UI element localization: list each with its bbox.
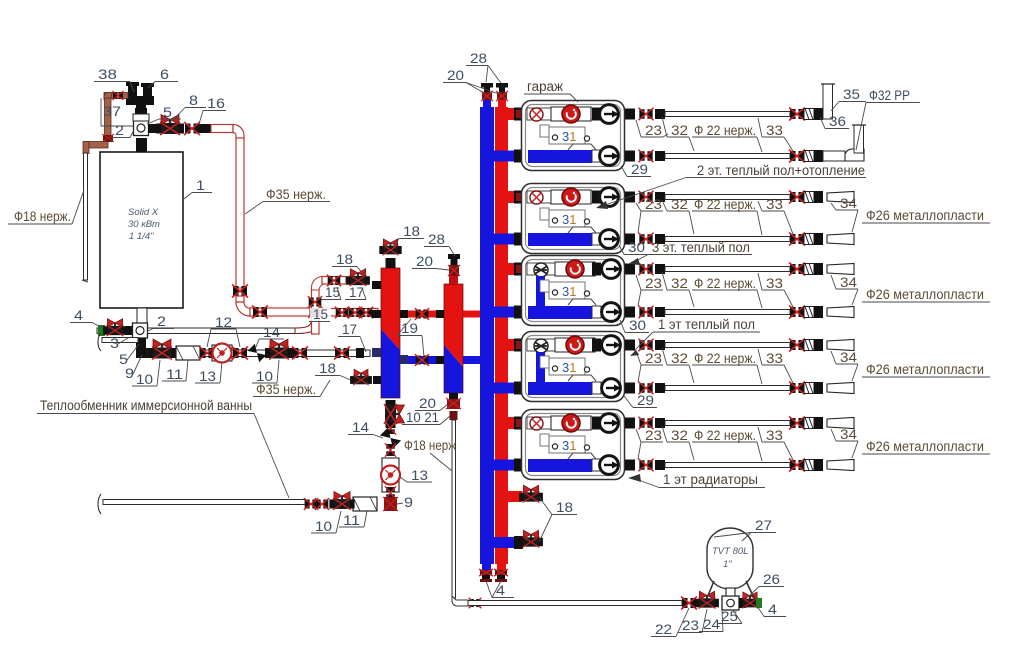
svg-text:14: 14 [352,420,370,435]
svg-text:28: 28 [428,232,445,247]
svg-text:1 эт теплый пол: 1 эт теплый пол [658,317,755,332]
valve on upper stub (18) [346,269,370,286]
fitting 5 [135,108,147,114]
svg-text:20: 20 [419,396,436,411]
svg-text:2 эт. теплый пол+отопление: 2 эт. теплый пол+отопление [697,163,865,178]
svg-text:23: 23 [645,197,662,212]
adapter 34 [827,340,854,351]
svg-text:30: 30 [629,318,646,333]
sep1 bottom chain: valve10, check14, pump13, elbow9 [384,400,405,428]
valve 10 #1 [148,339,176,360]
svg-text:Ф 22 нерж.: Ф 22 нерж. [694,351,756,366]
expansion tank TVT 80L [707,528,753,589]
svg-text:38: 38 [98,67,117,82]
horizontal pipe to tank [468,601,682,606]
svg-text:30 кВт: 30 кВт [128,219,160,230]
adapter 34 [827,264,854,275]
balancing gauge top [600,188,619,207]
fitting 2 lower [133,323,148,338]
svg-text:22: 22 [655,622,672,637]
hydraulic separator 2 [444,284,463,367]
manifold red supply stub [508,191,516,203]
manifold blue return stub [494,151,516,162]
module return bar [528,459,592,472]
svg-text:35: 35 [843,87,860,102]
balancing gauge bottom [602,303,621,322]
thin line 3 (y339) [102,338,138,343]
manifold blue return stub [494,307,516,318]
module return bar [528,382,592,395]
manifold blue return stub [494,234,516,245]
module valve [530,191,543,204]
svg-text:Ф35 нерж.: Ф35 нерж. [256,382,316,397]
svg-text:5: 5 [163,105,172,120]
row1 supply pipe [625,109,635,120]
riser x312-319 [312,288,320,334]
row3 return pipe [625,307,635,318]
balancing gauge bottom [600,456,619,475]
top elbow to right [312,277,325,291]
svg-text:Ф18 нерж: Ф18 нерж [404,438,456,453]
s-jog left [86,142,108,149]
manifold blue bar [480,107,494,564]
svg-text:Ф 22 нерж.: Ф 22 нерж. [694,197,756,212]
module pump [551,107,591,121]
svg-text:33: 33 [766,123,783,138]
svg-text:31: 31 [562,360,576,375]
union 12b [232,347,248,360]
manifold red supply stub [508,108,516,120]
elbow 9 [384,497,397,511]
row5 return pipe [625,460,635,471]
balancing gauge bottom [602,379,621,398]
pump module M1 [522,101,625,171]
return line y330 [97,328,303,334]
filter 11 [176,346,200,360]
row1 return pipe [625,151,635,162]
sep2 bottom stub / valve 20 / fitting 21 [449,393,458,399]
row3 supply pipe [625,264,635,275]
svg-text:Ф26 металлопласти: Ф26 металлопласти [866,287,984,302]
svg-text:31: 31 [562,212,576,227]
F35 horiz continuation to sep [320,309,378,317]
union on drop [103,135,113,142]
svg-text:24: 24 [703,617,721,632]
svg-text:27: 27 [755,518,772,533]
row1 riser F32 top [823,84,833,119]
svg-text:14: 14 [263,325,281,340]
svg-text:1 1/4": 1 1/4" [129,231,154,242]
elbow to right [236,302,252,316]
module pump [551,190,591,204]
F18 thin pipe down [452,420,456,598]
svg-text:Ф26 металлопласти: Ф26 металлопласти [866,208,984,223]
tank stub [726,588,735,596]
svg-text:20: 20 [416,254,433,269]
mixing screw [534,339,548,353]
svg-text:29: 29 [637,393,654,408]
svg-text:29: 29 [631,162,648,177]
fitting after boiler fitting [148,124,159,133]
svg-text:5: 5 [119,352,128,367]
svg-text:1: 1 [196,178,205,193]
tank legs [707,581,754,598]
elbow down [104,93,112,101]
balancing gauge top [602,336,621,355]
svg-text:12: 12 [215,315,232,330]
row2 supply pipe [625,192,635,203]
svg-text:15: 15 [325,285,340,300]
svg-text:10 21: 10 21 [406,410,439,425]
line from boiler bottom [137,308,147,329]
manifold bottom drains 4 [482,564,491,570]
module valve [530,417,543,430]
svg-text:23: 23 [682,618,699,633]
union 16 [184,122,200,135]
manifold red supply stub [508,417,516,429]
module valve [530,108,543,121]
svg-text:Ф 22 нерж.: Ф 22 нерж. [694,276,756,291]
svg-text:13: 13 [199,369,216,384]
link pipes sep1-sep2 with unions 19 [408,311,436,318]
svg-text:Solid X: Solid X [128,207,159,218]
module pump [555,338,595,352]
svg-text:28: 28 [470,51,487,66]
svg-text:Ф32 PP: Ф32 PP [869,88,910,103]
boiler top stub [136,138,147,152]
svg-text:4: 4 [74,308,84,323]
svg-text:Ф 22 нерж.: Ф 22 нерж. [694,123,756,138]
row2 return pipe [625,234,635,245]
svg-text:3: 3 [110,336,119,351]
svg-text:11: 11 [343,513,360,528]
valve 4 green [98,325,105,336]
fitting 2 on boiler top [134,121,149,136]
svg-text:18: 18 [319,361,336,376]
module return bar [528,306,592,319]
balancing gauge top [600,105,619,124]
svg-text:TVT 80L: TVT 80L [712,546,748,557]
svg-text:32: 32 [671,123,688,138]
svg-text:6: 6 [160,67,169,82]
svg-text:33: 33 [766,197,783,212]
svg-text:34: 34 [840,427,858,442]
top stubs + vents 20/28 [483,100,491,108]
unions [315,498,329,510]
sep1 lower-left drain valve 18 [350,369,372,385]
svg-text:Ф26 металлопласти: Ф26 металлопласти [866,439,984,454]
pump run y353 [148,350,370,357]
svg-text:18: 18 [556,500,573,515]
svg-text:Ф 22 нерж.: Ф 22 нерж. [694,428,756,443]
filter 11 [353,497,377,511]
svg-text:23: 23 [645,351,662,366]
manifold blue return stub [494,383,516,394]
balancing gauge top [600,414,619,433]
sep1 right stubs [400,310,408,318]
svg-text:34: 34 [840,275,858,290]
svg-text:Ф26 металлопласти: Ф26 металлопласти [866,362,984,377]
svg-text:Ф18 нерж.: Ф18 нерж. [14,209,71,224]
sep2 top vent 28/20 [448,254,460,259]
balancing gauge bottom [600,147,619,166]
row4 return pipe [625,383,635,394]
tee 25 under tank [722,596,739,610]
svg-text:Ф35 нерж.: Ф35 нерж. [266,187,326,202]
manifold red bar [495,107,508,564]
manifold blue return stub [494,460,516,471]
svg-text:2: 2 [115,123,124,138]
union 12a [199,347,215,360]
svg-text:34: 34 [840,196,858,211]
check valve 14 [248,344,266,362]
svg-text:30: 30 [628,240,645,255]
vertical F35 drop [236,138,244,288]
tee at F35 crossing [310,308,322,317]
svg-text:17: 17 [349,285,364,300]
svg-text:Теплообменник иммерсионной ван: Теплообменник иммерсионной ванны [40,398,252,413]
svg-text:26: 26 [763,572,780,587]
pump module M4 [522,332,625,402]
svg-text:32: 32 [671,428,688,443]
elbow at bottom left of F18 drop [452,596,468,606]
valve 23 [695,591,719,608]
thin pipe F18 down [84,153,88,280]
module return bar [528,233,592,246]
adapter 34 [827,383,854,394]
svg-text:11: 11 [166,367,183,382]
boiler Solid X 30kW [100,152,183,308]
adapter 34 [827,418,854,429]
svg-text:37: 37 [103,104,121,119]
svg-text:гараж: гараж [527,79,563,94]
svg-text:8: 8 [189,93,198,108]
valve 4 with green end [739,592,761,608]
unions before sep [292,347,308,360]
svg-text:9: 9 [125,366,134,381]
mixing screw [534,263,548,277]
svg-text:10: 10 [315,519,332,534]
svg-text:2: 2 [157,314,166,329]
elbow turn down [233,125,244,141]
manifold red supply stub [508,339,516,351]
svg-text:1 эт радиаторы: 1 эт радиаторы [663,472,758,487]
svg-text:13: 13 [411,468,428,483]
svg-text:23: 23 [645,428,662,443]
adapter 34 [827,307,854,318]
adapter 34 [827,192,854,203]
pump module M2 [522,184,625,254]
svg-text:17: 17 [342,322,357,337]
svg-text:23: 23 [645,123,662,138]
pump 13 [212,345,232,361]
elbow 5/9 black drop [136,338,146,354]
svg-text:1": 1" [723,559,732,570]
adapter 34 [827,460,854,471]
S-bend from line3 up to riser [295,320,319,334]
svg-text:18: 18 [336,252,353,267]
svg-text:18: 18 [403,224,420,239]
module pump [551,416,591,430]
pump module M5 [522,410,625,480]
module return bar [528,150,592,163]
row1 riser F32 bottom [823,151,845,161]
svg-text:25: 25 [721,609,738,624]
svg-text:32: 32 [671,276,688,291]
svg-text:31: 31 [562,284,576,299]
safety group 6/38 [126,96,154,105]
hydraulic separator 1 [381,268,400,350]
union 22 [681,597,697,610]
horizontal F35 to separator [250,308,312,316]
svg-text:36: 36 [829,114,846,129]
row4 supply pipe [625,340,635,351]
row5 supply pipe [625,418,635,429]
pipe to elbow [211,125,233,133]
svg-text:20: 20 [447,68,464,83]
manifold red supply stub [508,263,516,275]
sep1 top stub + valve 18 [386,258,396,268]
svg-text:23: 23 [645,276,662,291]
svg-text:15: 15 [313,307,328,322]
svg-text:32: 32 [671,351,688,366]
svg-text:3 эт. теплый пол: 3 эт. теплый пол [652,240,750,255]
ball valve 8 [156,115,184,136]
pump module M3 [522,256,625,326]
module pump [555,262,595,276]
svg-text:9: 9 [404,495,413,510]
balancing gauge top [602,260,621,279]
sep2 stubs [449,276,458,284]
svg-text:10: 10 [136,372,153,387]
svg-text:33: 33 [766,428,783,443]
svg-text:32: 32 [671,197,688,212]
bottom right red stub + valve 18 [508,491,522,502]
copper pipe left from safety group [104,93,128,99]
sep1 left stubs [372,281,381,289]
svg-text:31: 31 [562,129,576,144]
svg-text:16: 16 [207,96,225,111]
svg-text:19: 19 [401,321,418,336]
svg-text:4: 4 [768,602,778,617]
svg-text:31: 31 [562,438,576,453]
svg-text:34: 34 [840,350,858,365]
valve 10 #2 [265,339,293,360]
long thin pipe to left with break [103,500,305,505]
svg-text:33: 33 [766,351,783,366]
bottom right blue stub + valve 18 [494,537,522,548]
svg-text:33: 33 [766,276,783,291]
svg-text:4: 4 [496,583,506,598]
valve 10 [329,491,354,509]
adapter 34 [827,234,854,245]
balancing gauge bottom [600,230,619,249]
